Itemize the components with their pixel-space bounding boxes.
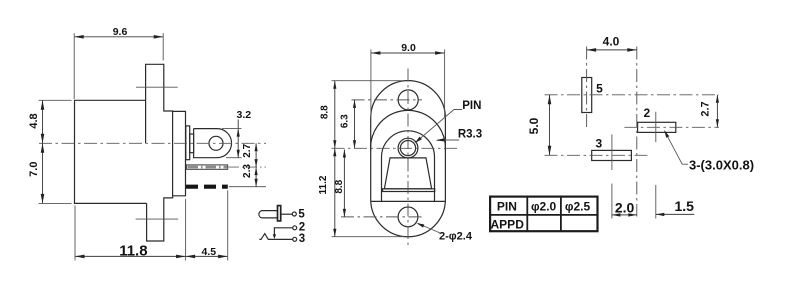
dimension 2.0	[612, 199, 637, 216]
dimension 6.3	[340, 100, 356, 148]
front view: boss U shape R3.3	[382, 131, 435, 202]
svg-text:3.2: 3.2	[236, 109, 251, 121]
footprint: pad 2	[638, 122, 676, 132]
front view: round body arc	[371, 110, 446, 150]
svg-text:9.0: 9.0	[401, 42, 416, 54]
svg-text:9.6: 9.6	[113, 26, 128, 38]
dimension 11.8	[75, 199, 186, 260]
dimension 2.7 side	[242, 143, 258, 167]
schematic: wire pin 5	[281, 213, 292, 215]
svg-text:3: 3	[595, 137, 602, 151]
front view: extension line bottom	[332, 236, 405, 238]
svg-text:4.5: 4.5	[201, 246, 216, 258]
label 2-dia2.4 with leader	[416, 223, 473, 243]
dimension 8.8 lower	[334, 150, 346, 217]
footprint: pin2 vertical centerline	[636, 47, 638, 217]
front view: top mounting hole	[398, 90, 418, 110]
schematic: terminal circle 3	[293, 237, 297, 241]
schematic: terminal circle 2	[293, 226, 297, 230]
svg-text:11.2: 11.2	[318, 175, 329, 194]
dimension 3.2	[222, 109, 251, 158]
front view: chord line	[371, 200, 446, 202]
svg-text:3: 3	[299, 233, 305, 245]
svg-text:2-φ2.4: 2-φ2.4	[439, 230, 473, 242]
dimension 11.2	[318, 148, 336, 236]
front view: vertical centerline	[407, 69, 409, 249]
side view: jack body outline	[75, 64, 173, 241]
svg-text:2: 2	[299, 221, 305, 233]
front view: center pin outer	[398, 138, 418, 158]
side view: flange crossing line top	[136, 86, 178, 88]
svg-text:8.8: 8.8	[320, 105, 331, 119]
schematic: switch wire pin 3	[259, 234, 292, 240]
front view: top hole centerline	[352, 99, 423, 101]
svg-text:6.3: 6.3	[340, 114, 351, 128]
front view: trapezoid insert	[384, 158, 431, 189]
schematic: terminal circle 5	[292, 212, 296, 216]
dimension 2.7 footprint	[699, 95, 719, 128]
side view: flange plate	[173, 111, 186, 195]
svg-text:4.8: 4.8	[28, 113, 40, 128]
svg-text:PIN: PIN	[497, 200, 517, 214]
front view: horizontal centerline	[332, 147, 458, 149]
svg-text:5: 5	[596, 82, 603, 96]
dimension 4.5	[186, 190, 228, 260]
schematic: pin bar	[278, 206, 281, 221]
side view: flange crossing line bottom	[136, 218, 179, 220]
svg-text:5: 5	[298, 209, 305, 221]
dimension 7.0	[28, 143, 72, 203]
svg-text:11.8: 11.8	[119, 242, 147, 259]
svg-text:2.7: 2.7	[699, 101, 711, 116]
title table	[490, 197, 597, 232]
front view: obround flange outline	[371, 81, 446, 237]
footprint: pad2 row centerline	[624, 126, 719, 128]
svg-text:PIN: PIN	[462, 100, 481, 112]
side view: lug hole	[209, 136, 223, 150]
svg-text:APPD: APPD	[491, 218, 525, 232]
label 3-(3.0X0.8) with leader	[664, 130, 754, 172]
front view: extension line top	[332, 80, 405, 82]
svg-text:φ2.5: φ2.5	[565, 200, 591, 214]
footprint: extension pad2 tick	[655, 185, 657, 219]
svg-text:5.0: 5.0	[527, 117, 541, 134]
svg-text:R3.3: R3.3	[458, 128, 482, 140]
dimension 5.0	[527, 95, 551, 156]
footprint: pad3 row centerline	[545, 154, 649, 156]
dimension 4.0	[587, 35, 637, 52]
svg-text:2: 2	[643, 106, 650, 120]
label R3.3 with leader	[436, 128, 483, 141]
schematic: plug pin symbol	[259, 211, 278, 218]
dimension 2.3	[242, 164, 258, 187]
footprint: extension pad3	[611, 184, 613, 219]
svg-text:4.0: 4.0	[603, 35, 620, 49]
front view: bottom hole centerline	[341, 216, 425, 218]
footprint: pad5 vertical centerline	[586, 47, 588, 129]
footprint: main horizontal centerline	[545, 94, 720, 96]
svg-text:7.0: 7.0	[28, 162, 40, 177]
side view: center pin lug	[194, 129, 232, 158]
label PIN with leader	[415, 100, 482, 143]
side view: thick dashed terminal (section)	[186, 185, 266, 189]
dimension 8.8 upper	[320, 81, 337, 149]
footprint: pad 5	[582, 78, 592, 113]
dimension 9.6	[74, 26, 163, 99]
side view: horizontal centerline	[39, 142, 266, 144]
dimension 9.0	[371, 42, 445, 117]
side view: bushing washer	[186, 126, 190, 160]
svg-text:3-(3.0X0.8): 3-(3.0X0.8)	[689, 157, 754, 172]
schematic: wire pin 2	[274, 228, 292, 238]
side view: bushing washer step	[190, 134, 194, 153]
svg-text:1.5: 1.5	[674, 198, 694, 214]
front view: trapezoid base strip	[383, 189, 435, 192]
dimension 1.5	[656, 198, 695, 216]
footprint: pad2 tick line	[655, 112, 657, 142]
front view: center pin inner	[400, 141, 415, 156]
dimension 4.8	[28, 100, 72, 143]
side view: flat terminal bar with hatch	[186, 165, 266, 169]
footprint: pad 3	[592, 150, 632, 160]
front view: bottom mounting hole	[398, 207, 418, 227]
svg-text:2.7: 2.7	[242, 143, 253, 157]
svg-text:φ2.0: φ2.0	[531, 200, 557, 214]
svg-text:2.3: 2.3	[242, 164, 253, 178]
svg-text:2.0: 2.0	[615, 199, 635, 215]
svg-text:8.8: 8.8	[334, 179, 345, 193]
footprint: pad3 tick line	[611, 134, 613, 170]
